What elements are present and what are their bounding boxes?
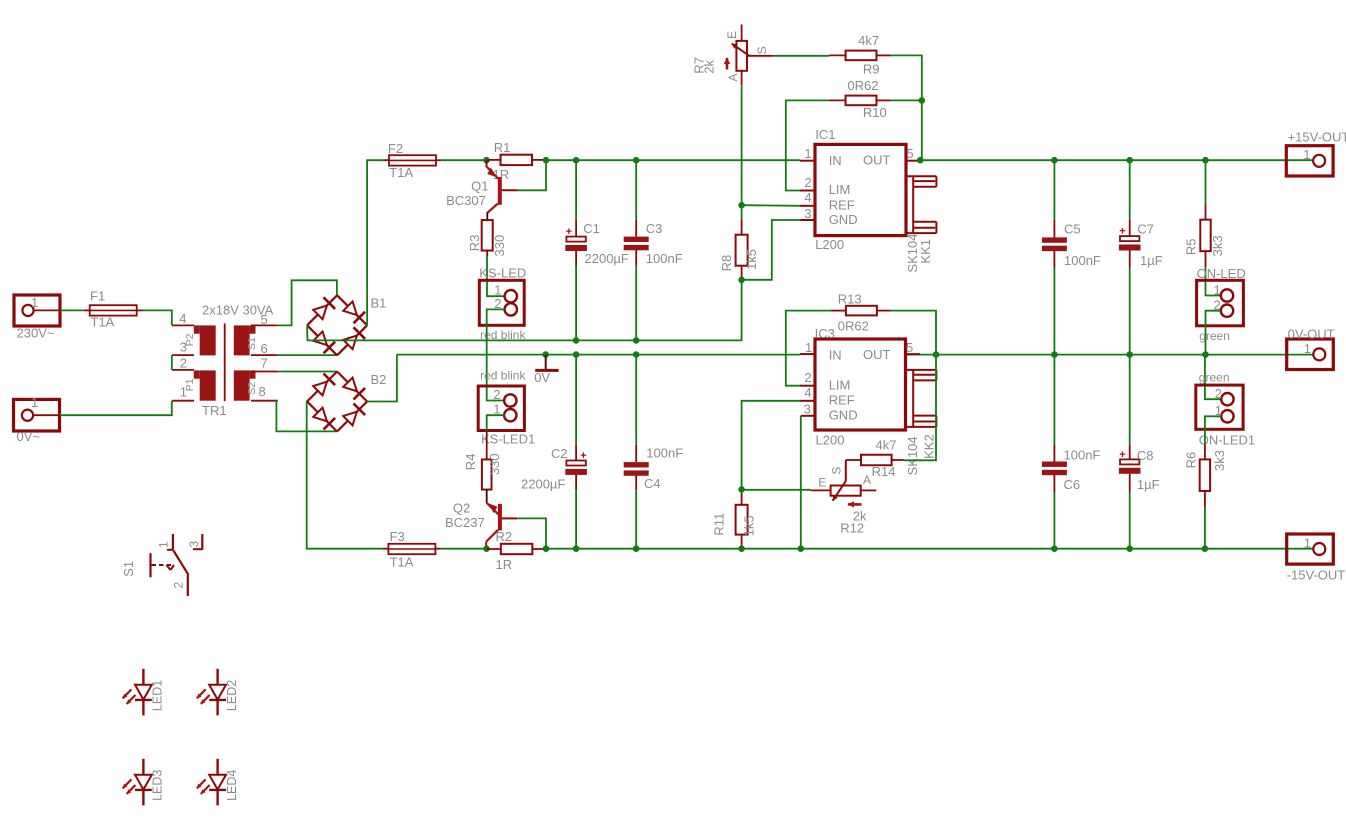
ON-LED1 pin number 2 xyxy=(1215,386,1222,401)
IC1 text GND xyxy=(829,212,858,227)
wire KS-LED1 pin1 to R4 xyxy=(487,415,505,430)
transformer TR1 pin 7 xyxy=(251,371,278,373)
value 100nF (C5) xyxy=(1064,253,1101,268)
IC3 text LIM xyxy=(829,377,851,392)
svg-text:R14: R14 xyxy=(872,464,896,479)
value 1R (R1) xyxy=(493,167,510,182)
0V-OUT pin number 1 xyxy=(1304,341,1311,356)
svg-text:1: 1 xyxy=(31,295,38,310)
wire F3 to R2 xyxy=(441,548,486,550)
KS-LED1 pin number 2 xyxy=(493,387,500,402)
svg-text:R2: R2 xyxy=(496,529,513,544)
svg-text:3: 3 xyxy=(187,541,201,548)
svg-text:5: 5 xyxy=(906,146,913,161)
junction 0V symbol xyxy=(542,351,549,358)
svg-text:0V-OUT: 0V-OUT xyxy=(1288,327,1335,342)
junction C4 top xyxy=(633,351,640,358)
capacitor C8 1uF xyxy=(1119,355,1141,549)
svg-text:GND: GND xyxy=(829,408,858,423)
svg-text:LED4: LED4 xyxy=(225,770,239,801)
label C3 xyxy=(646,221,663,236)
wire TR1 pin6 to B1 AC bottom xyxy=(278,354,337,356)
svg-text:KK2: KK2 xyxy=(922,434,937,459)
value L200 (IC1) xyxy=(815,237,844,252)
svg-text:+: + xyxy=(1119,449,1125,461)
IC1 pin number 2 xyxy=(804,175,811,190)
IC1 pin 3 (GND) xyxy=(800,219,815,221)
capacitor C3 100nF xyxy=(624,160,649,340)
svg-text:B2: B2 xyxy=(371,372,387,387)
capacitor C4 100nF xyxy=(624,355,649,549)
svg-text:100nF: 100nF xyxy=(1064,253,1101,268)
svg-text:LED2: LED2 xyxy=(225,680,239,711)
svg-text:2: 2 xyxy=(804,370,811,385)
svg-text:R6: R6 xyxy=(1183,452,1198,469)
svg-text:F3: F3 xyxy=(390,529,405,544)
label R2 xyxy=(496,529,513,544)
svg-text:Q1: Q1 xyxy=(471,178,488,193)
svg-text:6: 6 xyxy=(261,341,268,356)
label F1 xyxy=(90,289,105,304)
svg-text:100nF: 100nF xyxy=(646,445,683,460)
junction R5 top xyxy=(1202,157,1209,164)
value 100nF (C3) xyxy=(646,251,683,266)
svg-text:S1: S1 xyxy=(246,337,258,350)
label LED3 xyxy=(151,770,165,801)
diode LED1 xyxy=(123,669,152,716)
svg-text:3: 3 xyxy=(804,402,811,417)
svg-text:KS-LED: KS-LED xyxy=(479,266,526,281)
value T1A (F1) xyxy=(91,315,115,330)
IC1 pin 4 (REF) xyxy=(800,205,815,207)
svg-text:R3: R3 xyxy=(467,235,482,252)
label KK2 xyxy=(922,434,937,459)
value 1uF (C7) xyxy=(1140,253,1163,268)
label C8 xyxy=(1137,448,1154,463)
svg-text:5: 5 xyxy=(906,340,913,355)
transformer TR1 core xyxy=(224,324,226,402)
transformer TR1 pin 2 xyxy=(172,369,194,371)
label R9 xyxy=(863,62,880,77)
net label +15V-OUT xyxy=(1288,129,1346,144)
svg-text:2: 2 xyxy=(1215,386,1222,401)
svg-text:R1: R1 xyxy=(494,140,511,155)
svg-text:S2: S2 xyxy=(246,382,258,395)
wire R13 right to IC3 OUT xyxy=(891,311,936,355)
bridge rectifier B1 xyxy=(307,295,367,355)
svg-text:100nF: 100nF xyxy=(1064,447,1101,462)
wire REF2 junction to R12 E xyxy=(742,489,811,491)
svg-text:3k3: 3k3 xyxy=(1212,450,1227,471)
wire F1 to TR1 pin4 xyxy=(143,310,172,325)
label TR1 xyxy=(202,403,227,418)
svg-text:S: S xyxy=(755,46,769,54)
wire ON-LED pin2 to 0V line xyxy=(1206,311,1221,355)
label R1 xyxy=(494,140,511,155)
svg-text:T1A: T1A xyxy=(390,555,414,570)
label B2 xyxy=(371,372,387,387)
net label -15V-OUT xyxy=(1287,568,1346,583)
capacitor C5 100nF xyxy=(1042,160,1067,354)
junction R1/Q1 base xyxy=(543,157,550,164)
svg-text:red blink: red blink xyxy=(480,368,526,382)
svg-text:0V: 0V xyxy=(534,370,550,385)
svg-text:3: 3 xyxy=(804,206,811,221)
fuse F1 xyxy=(84,305,143,315)
label Q2 xyxy=(453,500,470,515)
IC3 pin 5 stub xyxy=(906,353,921,355)
bridge rectifier B2 xyxy=(307,372,367,432)
svg-text:1: 1 xyxy=(805,340,812,355)
value 2k (R12) xyxy=(853,509,867,524)
value 2200uF (C2) xyxy=(521,476,565,491)
TR1 winding label P2 xyxy=(184,333,196,346)
svg-text:IN: IN xyxy=(829,153,842,168)
wire 230V~ to F1 xyxy=(60,309,84,311)
resistor R5 3k3 xyxy=(1200,160,1210,268)
wire R10 left to IC1 LIM xyxy=(786,100,829,190)
resistor R4 330 xyxy=(482,431,492,503)
TR1 value 2x18V 30VA xyxy=(202,303,274,318)
junction C1 top xyxy=(573,157,580,164)
diode LED2 xyxy=(197,669,226,716)
value 2200uF (C1) xyxy=(585,251,629,266)
svg-text:A: A xyxy=(863,473,871,487)
wire IC3 OUT to 0V-OUT xyxy=(906,354,1314,356)
trimmer R7 2k xyxy=(732,25,773,86)
svg-text:F1: F1 xyxy=(90,289,105,304)
wire R5 to ON-LED pin1 xyxy=(1206,268,1221,296)
wire REF2 junction to IC3 REF xyxy=(742,401,800,490)
wire Q2 base to R2 right xyxy=(517,518,546,548)
svg-text:IC3: IC3 xyxy=(815,326,835,341)
svg-text:P2: P2 xyxy=(184,333,196,346)
wire B1 - down to return line xyxy=(307,280,741,341)
svg-text:1: 1 xyxy=(493,401,500,416)
TR1 pin number 2 xyxy=(180,355,187,370)
transformer TR1 pin 1 xyxy=(172,400,194,402)
label ON-LED1 xyxy=(1199,432,1255,447)
KS-LED1 pin number 1 xyxy=(493,401,500,416)
junction C7 top xyxy=(1126,157,1133,164)
TR1 winding label P1 xyxy=(184,378,196,391)
IC1 text OUT xyxy=(863,152,891,167)
svg-text:ON-LED1: ON-LED1 xyxy=(1199,432,1255,447)
svg-text:4k7: 4k7 xyxy=(876,438,897,453)
svg-text:R4: R4 xyxy=(463,454,478,471)
svg-text:green: green xyxy=(1199,371,1230,385)
junction R6 bottom xyxy=(1202,545,1209,552)
svg-text:L200: L200 xyxy=(816,432,845,447)
IC1 text REF xyxy=(829,197,855,212)
KS-LED pin number 2 xyxy=(494,296,501,311)
transformer TR1 pin 6 xyxy=(251,354,278,356)
R7 adjustment arrow xyxy=(724,58,730,70)
junction C8 bottom xyxy=(1126,545,1133,552)
label C5 xyxy=(1064,222,1081,237)
value 2k (R7) xyxy=(702,59,717,73)
TR1 pin number 7 xyxy=(261,355,268,370)
junction F2/R1/Q1 xyxy=(483,157,490,164)
heatsink KK2 xyxy=(907,370,937,427)
junction C3 bottom xyxy=(633,337,640,344)
svg-text:IC1: IC1 xyxy=(815,127,835,142)
label R6 xyxy=(1183,452,1198,469)
svg-text:A: A xyxy=(726,73,740,81)
transistor Q1 BC307 xyxy=(486,160,517,221)
svg-text:+: + xyxy=(566,226,572,238)
svg-text:R9: R9 xyxy=(863,62,880,77)
svg-text:SK104: SK104 xyxy=(905,436,920,475)
R13 left wire to IC3 LIM xyxy=(786,311,831,386)
label IC3 xyxy=(815,326,835,341)
label R5 xyxy=(1183,238,1198,255)
IC1 pin 2 (LIM) xyxy=(800,190,815,192)
label LED1 xyxy=(151,680,165,711)
junction IC1 OUT xyxy=(917,157,924,164)
IC1 pin number 1 xyxy=(804,146,811,161)
wire Q1 base to R1 right xyxy=(518,160,546,190)
junction R11 bottom xyxy=(738,545,745,552)
heatsink KK1 xyxy=(907,176,937,233)
transformer TR1 pin 3 xyxy=(172,354,194,356)
label R13 xyxy=(838,292,862,307)
net label red blink (upper) xyxy=(480,328,526,342)
value T1A (F3) xyxy=(390,555,414,570)
svg-text:1: 1 xyxy=(1304,536,1311,551)
label F2 xyxy=(388,141,403,156)
resistor R1 xyxy=(487,155,547,165)
label R7 xyxy=(691,57,706,74)
svg-text:2200µF: 2200µF xyxy=(585,251,629,266)
value 0R62 (R10) xyxy=(847,78,878,93)
junction ON-LED pin2 / 0V xyxy=(1202,351,1209,358)
value 0R62 (R13) xyxy=(838,319,869,334)
IC1 pin 5 (OUT) xyxy=(906,160,920,162)
svg-text:2k: 2k xyxy=(702,59,717,73)
value 3k3 (R6) xyxy=(1212,450,1227,471)
svg-text:2: 2 xyxy=(172,582,186,589)
resistor R2 1R xyxy=(487,544,547,554)
label F3 xyxy=(390,529,405,544)
wire C3 to IC1 IN xyxy=(636,159,800,161)
capacitor C1 2200uF xyxy=(565,160,587,340)
IC1 pin 1 (IN) xyxy=(800,160,815,162)
IC1 L200 regulator box xyxy=(815,144,906,235)
svg-text:C1: C1 xyxy=(583,221,600,236)
IC3 text OUT xyxy=(863,347,891,362)
label R12 xyxy=(840,520,864,535)
svg-text:Q2: Q2 xyxy=(453,500,470,515)
R12 terminal label E xyxy=(818,475,826,489)
junction C7 bottom xyxy=(1126,351,1133,358)
svg-text:1: 1 xyxy=(1303,147,1310,162)
label S1 xyxy=(121,561,136,577)
ON-LED1 pin number 1 xyxy=(1215,403,1222,418)
IC3 text REF xyxy=(829,393,855,408)
junction C1 bottom xyxy=(573,337,580,344)
svg-text:5: 5 xyxy=(261,312,268,327)
svg-text:1R: 1R xyxy=(496,557,513,572)
svg-text:3k3: 3k3 xyxy=(1210,235,1225,256)
junction C3 top xyxy=(633,157,640,164)
wire TR1 pin5 to B1 AC top xyxy=(278,280,337,325)
IC3 pin number 2 xyxy=(804,370,811,385)
value 3k3 (R5) xyxy=(1210,235,1225,256)
wire B1 + to main positive rail xyxy=(367,160,383,325)
svg-text:1k5: 1k5 xyxy=(744,249,759,270)
IC3 pin 3 (GND) xyxy=(801,415,815,417)
svg-text:C6: C6 xyxy=(1064,477,1081,492)
net label green (lower) xyxy=(1199,371,1230,385)
connector ON-LED1 xyxy=(1196,385,1243,429)
value 1uF (C8) xyxy=(1137,477,1160,492)
value 1k5 (R11) xyxy=(742,515,757,536)
svg-text:OUT: OUT xyxy=(863,152,891,167)
junction C2 top xyxy=(573,351,580,358)
svg-text:T1A: T1A xyxy=(389,165,413,180)
svg-text:LIM: LIM xyxy=(829,182,851,197)
TR1 pin number 8 xyxy=(259,384,266,399)
svg-text:R13: R13 xyxy=(838,292,862,307)
IC3 pin 2 (LIM) xyxy=(800,385,815,387)
ON-LED pin number 1 xyxy=(1213,283,1220,298)
svg-text:LED3: LED3 xyxy=(151,770,165,801)
svg-text:GND: GND xyxy=(829,212,858,227)
TR1 pin number 1 xyxy=(180,385,187,400)
svg-text:R11: R11 xyxy=(712,513,727,536)
transformer TR1 pin 5 xyxy=(251,324,278,326)
S1 pin number 3 xyxy=(187,541,201,548)
value 1R (R2) xyxy=(496,557,513,572)
svg-text:2: 2 xyxy=(493,387,500,402)
junction C4 bottom xyxy=(633,545,640,552)
TR1 secondary winding S2 xyxy=(234,370,256,400)
label C7 xyxy=(1137,222,1154,237)
svg-text:LIM: LIM xyxy=(829,377,851,392)
TR1 pin number 3 xyxy=(180,340,187,355)
junction C5 top xyxy=(1051,157,1058,164)
value T1A (F2) xyxy=(389,165,413,180)
transistor Q2 BC237 xyxy=(486,503,517,546)
junction IC3 GND bottom xyxy=(798,545,805,552)
label IC1 xyxy=(815,127,835,142)
label SK104 (KK1) xyxy=(905,234,920,273)
TR1 primary winding P2 xyxy=(194,325,216,355)
TR1 winding label S1 xyxy=(246,337,258,350)
label SK104 (KK2) xyxy=(905,436,920,475)
junction C5 bottom xyxy=(1051,351,1058,358)
label Q1 xyxy=(471,178,488,193)
svg-text:P1: P1 xyxy=(184,378,196,391)
R12 terminal label A xyxy=(863,473,871,487)
IC1 pin number 5 xyxy=(906,146,913,161)
svg-text:2: 2 xyxy=(804,175,811,190)
resistor R8 1k5 xyxy=(736,205,748,280)
wire R10 right to junction xyxy=(891,99,922,101)
svg-text:230V~: 230V~ xyxy=(17,326,55,341)
svg-text:BC307: BC307 xyxy=(446,193,486,208)
svg-text:2200µF: 2200µF xyxy=(521,476,565,491)
svg-text:R12: R12 xyxy=(840,520,864,535)
resistor R11 1k5 xyxy=(736,493,748,546)
capacitor C2 2200uF xyxy=(565,355,587,549)
wire C1 to C3 rail xyxy=(576,159,636,161)
R7 terminal label A xyxy=(726,73,740,81)
connector ON-LED xyxy=(1197,280,1244,326)
TR1 pin number 6 xyxy=(261,341,268,356)
connector pad +15V-OUT xyxy=(1286,146,1333,176)
S1 pin number 1 xyxy=(157,541,171,548)
net label green (upper) xyxy=(1199,329,1230,343)
-15V-OUT pin number 1 xyxy=(1304,536,1311,551)
svg-text:4k7: 4k7 xyxy=(858,33,879,48)
TR1 pin number 5 xyxy=(261,312,268,327)
svg-text:330: 330 xyxy=(492,235,507,257)
svg-text:1: 1 xyxy=(157,541,171,548)
label R3 xyxy=(467,235,482,252)
svg-text:R10: R10 xyxy=(863,105,887,120)
TR1 primary winding P1 xyxy=(194,370,216,400)
svg-text:1k5: 1k5 xyxy=(742,515,757,536)
wire IC3 GND down to negative rail xyxy=(800,416,802,549)
diode LED3 xyxy=(123,759,152,806)
value 330 (R4) xyxy=(487,453,502,475)
svg-text:330: 330 xyxy=(487,453,502,475)
ON-LED pin number 2 xyxy=(1213,297,1220,312)
label C4 xyxy=(644,476,661,491)
junction R2/Q2 base xyxy=(543,545,550,552)
value BC237 (Q2) xyxy=(445,515,485,530)
label KK1 xyxy=(918,239,933,264)
svg-text:OUT: OUT xyxy=(863,347,891,362)
svg-text:BC237: BC237 xyxy=(445,515,485,530)
svg-text:100nF: 100nF xyxy=(646,251,683,266)
svg-text:S: S xyxy=(829,467,843,475)
label B1 xyxy=(371,295,387,310)
label C1 xyxy=(583,221,600,236)
label C6 xyxy=(1064,477,1081,492)
fuse F2 xyxy=(384,155,442,165)
net label red blink (lower) xyxy=(480,368,526,382)
wire 0V to ON-LED1 pin2 xyxy=(1205,355,1221,400)
wire R14 right up to IC3 OUT xyxy=(904,355,936,461)
svg-text:2: 2 xyxy=(180,355,187,370)
svg-text:C7: C7 xyxy=(1137,222,1154,237)
net label 0V~ xyxy=(17,429,41,444)
junction R9/R10 right xyxy=(919,97,926,104)
label C2 xyxy=(551,446,568,461)
svg-text:+15V-OUT: +15V-OUT xyxy=(1288,129,1346,144)
label LED4 xyxy=(225,770,239,801)
svg-text:-15V-OUT: -15V-OUT xyxy=(1287,568,1346,583)
svg-text:C4: C4 xyxy=(644,476,661,491)
svg-text:F2: F2 xyxy=(388,141,403,156)
svg-text:0R62: 0R62 xyxy=(847,78,878,93)
svg-text:C3: C3 xyxy=(646,221,663,236)
wire TR1 pin8 to B2 AC bottom xyxy=(276,401,337,432)
svg-text:C2: C2 xyxy=(551,446,568,461)
resistor R3 xyxy=(482,220,493,256)
negative rail wire xyxy=(546,548,1314,550)
label R8 xyxy=(719,255,734,272)
transformer TR1 pin 4 xyxy=(172,324,194,326)
svg-text:E: E xyxy=(725,31,739,39)
label 230V~ pin 1 xyxy=(31,295,38,310)
label 0V~ pin 1 xyxy=(31,395,38,410)
capacitor C7 1uF xyxy=(1119,160,1141,354)
svg-text:+: + xyxy=(1119,226,1125,238)
